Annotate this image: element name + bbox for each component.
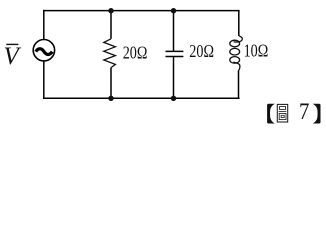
svg-text:20Ω: 20Ω: [123, 42, 148, 63]
svg-text:V: V: [4, 43, 22, 70]
svg-text:20Ω: 20Ω: [189, 40, 214, 61]
svg-text:10Ω: 10Ω: [244, 40, 269, 61]
svg-text:7: 7: [299, 99, 309, 124]
